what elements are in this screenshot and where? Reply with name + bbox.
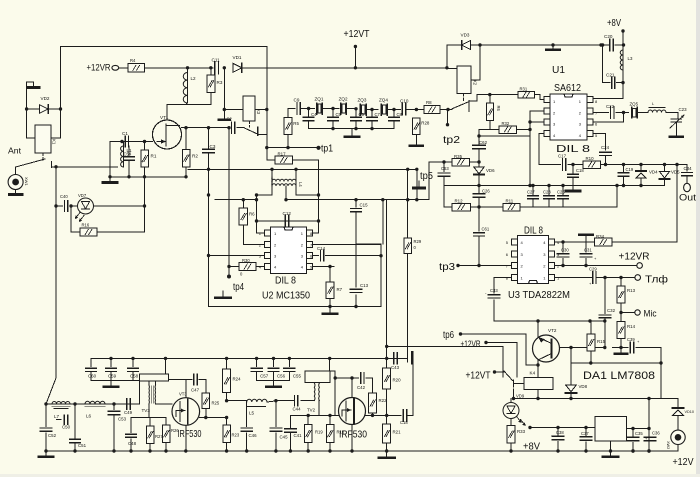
svg-text:C39: C39	[627, 337, 635, 342]
svg-text:R30: R30	[242, 258, 250, 263]
svg-text:ZQ3: ZQ3	[358, 98, 367, 103]
svg-text:C57: C57	[260, 374, 269, 379]
svg-text:IRF530: IRF530	[339, 429, 367, 441]
svg-text:C13: C13	[360, 283, 369, 288]
svg-text:R7: R7	[337, 287, 343, 292]
svg-text:VD2: VD2	[41, 96, 50, 101]
svg-text:C55: C55	[293, 374, 302, 379]
svg-text:tp5: tp5	[420, 171, 433, 182]
svg-text:C33: C33	[490, 288, 498, 293]
svg-text:TV2: TV2	[307, 408, 316, 413]
svg-text:VT1: VT1	[160, 115, 169, 120]
svg-text:C5: C5	[336, 112, 342, 117]
svg-text:C54: C54	[124, 152, 132, 157]
svg-text:K2: K2	[473, 80, 478, 86]
svg-text:+12VT: +12VT	[466, 371, 491, 382]
svg-text:C40: C40	[60, 194, 68, 199]
svg-text:tp3: tp3	[439, 262, 455, 273]
svg-text:VD7: VD7	[78, 193, 87, 198]
svg-text:XW1: XW1	[24, 177, 29, 186]
svg-text:C14: C14	[317, 246, 326, 251]
svg-text:IRF530: IRF530	[178, 428, 202, 440]
svg-text:R6: R6	[496, 106, 501, 112]
svg-text:VD3: VD3	[461, 33, 470, 38]
svg-text:R22: R22	[379, 398, 388, 403]
svg-text:C23: C23	[679, 107, 688, 112]
svg-text:C6: C6	[359, 112, 365, 117]
svg-text:C37: C37	[581, 431, 589, 436]
svg-text:U2 MC1350: U2 MC1350	[262, 291, 310, 302]
svg-text:C60: C60	[88, 374, 97, 379]
svg-text:C62: C62	[479, 140, 488, 145]
svg-text:C36: C36	[652, 431, 660, 436]
svg-text:C38: C38	[556, 430, 564, 435]
svg-text:+12VR: +12VR	[87, 63, 111, 74]
svg-text:C12: C12	[283, 211, 292, 216]
svg-text:R1: R1	[151, 154, 157, 159]
svg-text:L6: L6	[86, 414, 92, 419]
svg-text:+8V: +8V	[607, 18, 621, 29]
svg-text:K4: K4	[530, 371, 536, 376]
svg-text:C10: C10	[400, 99, 409, 104]
svg-text:C46: C46	[249, 433, 258, 438]
svg-text:C59: C59	[108, 374, 117, 379]
svg-text:C20: C20	[604, 34, 613, 39]
svg-text:VD6: VD6	[486, 168, 495, 173]
svg-text:C61: C61	[482, 227, 490, 232]
svg-text:C48: C48	[128, 441, 137, 446]
svg-text:R24: R24	[233, 377, 242, 382]
svg-text:C18: C18	[400, 420, 408, 425]
svg-text:R34: R34	[596, 234, 605, 239]
svg-text:DA1 LM7808: DA1 LM7808	[583, 370, 655, 382]
svg-text:+12V: +12V	[673, 456, 694, 468]
svg-text:C15: C15	[360, 202, 369, 207]
svg-text:tp6: tp6	[443, 330, 454, 341]
svg-text:R14: R14	[627, 324, 636, 329]
svg-text:R19: R19	[315, 430, 323, 435]
svg-text:R32: R32	[502, 121, 510, 126]
svg-text:R31: R31	[520, 87, 528, 92]
svg-text:C51: C51	[78, 443, 87, 448]
svg-text:R6: R6	[249, 212, 255, 217]
svg-text:C9: C9	[294, 98, 300, 103]
svg-text:C52: C52	[48, 433, 57, 438]
svg-text:ZQ2: ZQ2	[339, 97, 348, 102]
svg-text:C41: C41	[294, 433, 303, 438]
svg-text:C7: C7	[375, 112, 381, 117]
svg-text:C3: C3	[210, 144, 216, 149]
svg-text:R23: R23	[232, 433, 240, 438]
svg-text:L4: L4	[298, 182, 303, 187]
svg-text:C56: C56	[277, 374, 286, 379]
svg-text:VT2: VT2	[548, 328, 557, 333]
svg-text:C17: C17	[558, 154, 567, 159]
svg-text:C19: C19	[626, 167, 634, 172]
svg-text:K1: K1	[52, 139, 57, 145]
svg-text:R29: R29	[414, 239, 422, 244]
svg-text:Out: Out	[679, 193, 696, 204]
svg-text:L5: L5	[249, 411, 255, 416]
svg-text:C21: C21	[606, 73, 615, 78]
svg-text:R15: R15	[597, 339, 606, 344]
svg-text:C42: C42	[357, 385, 366, 390]
svg-text:C29: C29	[589, 267, 597, 272]
svg-text:C32: C32	[607, 308, 616, 313]
svg-text:R33: R33	[517, 429, 526, 434]
svg-text:tp1: tp1	[321, 144, 333, 155]
svg-text:C28: C28	[543, 189, 551, 194]
svg-text:Ant: Ant	[8, 146, 22, 156]
svg-text:C18: C18	[576, 168, 584, 173]
svg-text:ZQ1: ZQ1	[315, 97, 324, 102]
svg-text:C53: C53	[118, 417, 127, 422]
svg-text:VD5: VD5	[671, 170, 680, 175]
svg-text:R5: R5	[293, 121, 299, 126]
svg-text:Mic: Mic	[644, 309, 657, 320]
svg-text:U1: U1	[552, 65, 565, 76]
svg-text:R13: R13	[627, 288, 636, 293]
svg-text:VD10: VD10	[685, 410, 695, 414]
svg-text:C24: C24	[601, 145, 610, 150]
svg-text:R2: R2	[192, 154, 198, 159]
svg-text:VD4: VD4	[649, 170, 658, 175]
svg-text:ZQ5: ZQ5	[630, 102, 639, 107]
svg-text:C35: C35	[635, 431, 643, 436]
svg-text:C1: C1	[122, 131, 128, 136]
svg-text:DIL 8: DIL 8	[275, 276, 296, 287]
svg-text:R16: R16	[82, 223, 90, 228]
svg-text:C4: C4	[311, 112, 317, 117]
svg-text:C26: C26	[482, 189, 490, 194]
svg-text:L2: L2	[191, 76, 197, 81]
svg-text:C50: C50	[62, 425, 71, 430]
svg-text:L7: L7	[54, 414, 60, 419]
svg-text:R12: R12	[455, 198, 464, 203]
svg-text:R10: R10	[586, 156, 595, 161]
svg-text:tp2: tp2	[443, 135, 461, 146]
svg-text:C63: C63	[441, 166, 449, 171]
svg-text:Тлф: Тлф	[645, 274, 668, 286]
svg-text:VD9: VD9	[516, 394, 525, 399]
svg-text:R21: R21	[393, 430, 402, 435]
svg-text:R17: R17	[278, 152, 287, 157]
svg-text:+12VR: +12VR	[619, 252, 650, 263]
svg-text:C45: C45	[280, 435, 289, 440]
svg-text:DIL 8: DIL 8	[524, 226, 543, 237]
svg-text:R25: R25	[212, 401, 220, 406]
svg-text:R11: R11	[506, 198, 514, 203]
svg-text:C43: C43	[391, 365, 400, 370]
svg-text:C58: C58	[130, 374, 139, 379]
svg-text:C44: C44	[293, 407, 302, 412]
svg-text:C31: C31	[584, 248, 592, 253]
svg-text:R20: R20	[393, 378, 402, 383]
svg-text:C8: C8	[397, 112, 403, 117]
svg-text:C22: C22	[606, 104, 615, 109]
svg-text:C34: C34	[684, 166, 693, 171]
svg-text:C27: C27	[527, 189, 535, 194]
svg-text:XW2: XW2	[666, 441, 670, 449]
svg-text:+12VR: +12VR	[461, 339, 481, 350]
svg-text:R4: R4	[130, 58, 136, 63]
svg-text:VD8: VD8	[579, 384, 588, 389]
svg-text:C49: C49	[124, 410, 133, 415]
svg-text:R35: R35	[454, 154, 463, 159]
svg-text:C25: C25	[557, 189, 565, 194]
svg-text:+12VT: +12VT	[344, 29, 370, 40]
svg-text:C47: C47	[191, 388, 200, 393]
svg-text:SA612: SA612	[554, 83, 581, 94]
svg-text:tp4: tp4	[233, 282, 244, 293]
svg-text:C30: C30	[561, 248, 569, 253]
svg-text:R8: R8	[426, 100, 432, 105]
svg-text:R3: R3	[217, 80, 223, 85]
svg-text:C11: C11	[212, 58, 221, 63]
svg-text:VD1: VD1	[233, 55, 242, 60]
svg-text:L3: L3	[628, 56, 633, 61]
svg-text:ZQ4: ZQ4	[379, 98, 388, 103]
svg-text:U3 TDA2822M: U3 TDA2822M	[508, 290, 570, 301]
svg-text:R28: R28	[421, 121, 430, 126]
